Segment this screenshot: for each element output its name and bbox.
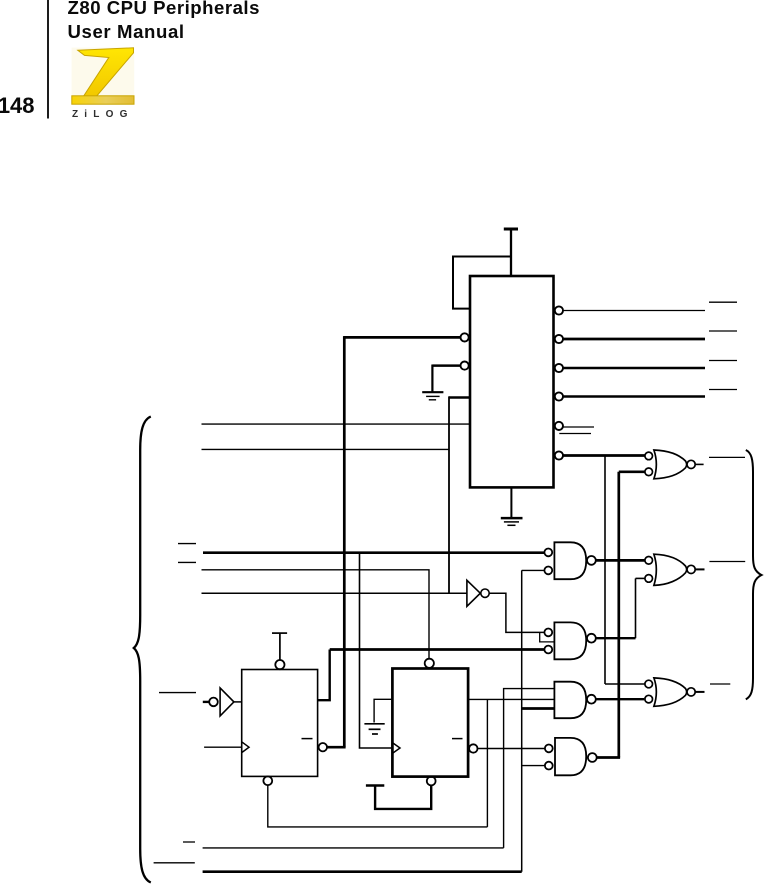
gate U6A (negative-input NOR shape) <box>645 450 695 479</box>
wire U1 pin 2 <box>563 338 705 341</box>
wire to U6C top input <box>605 683 645 685</box>
right brace <box>746 450 762 699</box>
wire U5C output to U6C bottom <box>596 698 645 700</box>
wire vertical U5B out to U6B bottom <box>635 578 637 638</box>
wire U5D output <box>597 756 620 759</box>
wire U3 Q to U5C mid input <box>468 698 554 700</box>
U3 Qbar overbar <box>452 738 463 740</box>
flip-flop U3 <box>392 669 468 777</box>
blank signal label left 2 <box>178 561 196 563</box>
gate U6B <box>645 554 695 585</box>
wire bus h5 to U7 input <box>202 592 467 594</box>
wire vertical bus C <box>521 570 523 871</box>
wire bus h2 <box>202 448 450 450</box>
wire U5B tied input step <box>540 632 555 642</box>
wire U5D bottom input stub <box>522 765 545 767</box>
wire vertical U2 bottom net <box>486 699 488 827</box>
wire U7 output to U5B top input <box>489 593 544 632</box>
inverter U8 at U2 input <box>203 701 209 703</box>
wire U2 bottom pin <box>268 785 488 827</box>
ground below U1 <box>510 487 512 518</box>
wire U6C output stub <box>695 691 704 693</box>
wire bus h4 to U3 top pin <box>202 570 430 659</box>
flip-flop U2 <box>242 670 318 777</box>
blank signal label left 1 <box>178 543 196 545</box>
wire U3 preset loop to VCC terminal <box>375 785 431 809</box>
gate U5A NAND <box>544 542 595 579</box>
ground at U3 <box>364 723 384 725</box>
wire U2 Qbar stub <box>327 746 346 749</box>
U2 bottom pin bubble <box>263 776 272 785</box>
wire bus 2 <box>203 870 522 873</box>
U3 top pin bubble <box>425 659 434 668</box>
gate U5C NAND <box>554 682 595 719</box>
blank signal label pin 5 <box>559 433 591 435</box>
wire U2 Q to U5B bottom input <box>318 650 330 701</box>
U3 bottom pin bubble <box>427 777 436 786</box>
wire U5A output to U6B top <box>596 559 645 562</box>
wire U3 pin to ground <box>374 699 392 722</box>
Zilog logo Z glyph <box>72 48 135 105</box>
svg-text:ZiLOG: ZiLOG <box>72 109 134 120</box>
blank signal label pin 4 <box>709 389 737 391</box>
wire U6A output stub <box>695 463 703 465</box>
wire bus h1 into U1 <box>202 423 471 425</box>
ground at U1 left pin <box>422 391 443 393</box>
U2 top pin bubble <box>275 660 284 669</box>
U2 Qbar overbar <box>302 738 313 740</box>
wire U5A bottom input stub <box>522 569 545 571</box>
U1 right pin 5 bubble <box>555 422 563 430</box>
blank signal label pin 1 <box>709 301 737 303</box>
wire vertical U2 Qbar to U1 <box>343 336 346 747</box>
VCC terminal above U2 <box>272 632 287 634</box>
blank signal label U6C <box>710 683 730 685</box>
wire to U6B bottom input <box>636 577 645 579</box>
blank signal label left 5 <box>154 862 195 864</box>
U1 left pin bubble 2 <box>461 362 469 370</box>
wire h3 branch to U3 clock <box>360 553 393 748</box>
U1 right pin 6 bubble <box>555 451 563 459</box>
wire U1 left pin 1 <box>343 336 460 339</box>
wire bus 1 <box>203 847 504 849</box>
U1 left pin bubble 1 <box>461 333 469 341</box>
VCC terminal above U1 <box>504 228 518 231</box>
IC U1 <box>470 276 554 487</box>
blank signal label U6B <box>709 561 745 563</box>
wire U1 pin 3 <box>563 367 705 370</box>
U3 Qbar bubble <box>469 744 477 752</box>
blank signal label pin 2 <box>709 330 737 332</box>
wire U5C top input from wire1 <box>504 689 555 848</box>
svg-text:Z80 CPU Peripherals: Z80 CPU Peripherals <box>68 0 260 18</box>
wire vertical U1 pin 6 to U6C top <box>604 456 606 685</box>
U3 clock chevron <box>392 743 400 754</box>
svg-text:User Manual: User Manual <box>68 21 185 42</box>
wire U6B output stub <box>695 568 704 570</box>
wire U2 clock stub <box>204 746 242 748</box>
wire U5C bottom input stub <box>522 707 555 710</box>
left brace <box>134 417 151 883</box>
blank signal label left 3 <box>159 692 196 694</box>
wire U1 pin 6 to gate U6A <box>563 454 645 457</box>
U2 Qbar bubble <box>319 743 327 751</box>
blank signal label pin 3 <box>709 360 737 362</box>
wire vertical to U7 input net <box>448 396 450 593</box>
header rule <box>47 0 49 119</box>
wire U1 left pin 2 to ground <box>432 364 460 367</box>
inverter U7 <box>467 580 489 606</box>
svg-text:148: 148 <box>0 93 35 118</box>
wire U1 pin 5 stub <box>564 426 595 428</box>
wire U1 left pin direct entry <box>449 396 470 399</box>
wire vertical U5D out to U6A bottom <box>617 472 620 758</box>
wire U3 Qbar to U5D top input <box>477 748 545 750</box>
gate U5D NAND <box>545 738 597 775</box>
U1 right pin 4 bubble <box>555 392 563 400</box>
wire U5B output <box>596 637 636 639</box>
wire U1 pin 1 <box>563 310 705 312</box>
blank signal label left 4 <box>183 841 195 843</box>
U1 right pin 2 bubble <box>555 335 563 343</box>
wire bus h3 to U5A top input <box>203 551 544 554</box>
gate U5B NAND <box>544 622 595 659</box>
U1 right pin 3 bubble <box>555 364 563 372</box>
blank signal label U6A <box>709 456 745 458</box>
wire to U6A bottom input <box>619 470 645 473</box>
gate U6C <box>645 678 695 706</box>
wire U1 pin 4 <box>563 395 705 398</box>
wire loop from VCC to U1 left pin <box>453 257 511 309</box>
U2 clock chevron <box>242 742 249 753</box>
U1 right pin 1 bubble <box>555 306 563 314</box>
